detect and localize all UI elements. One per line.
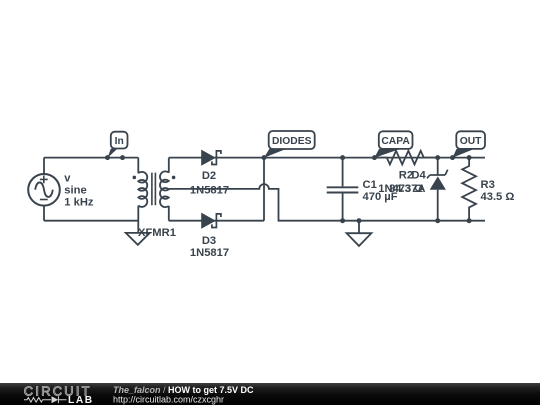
wire (43, 206, 45, 221)
wire riser (263, 158, 265, 221)
svg-text:1N5817: 1N5817 (190, 184, 229, 196)
label R2 (389, 170, 423, 195)
label R3 (481, 179, 515, 203)
diode D2 (201, 150, 221, 166)
node D4 top (435, 155, 440, 160)
label V1 value (64, 172, 94, 208)
wire (44, 157, 138, 159)
wire (168, 206, 170, 221)
svg-text:C1: C1 (363, 179, 377, 191)
wire (43, 158, 45, 174)
node R3 top (467, 155, 472, 160)
footer bar (0, 383, 540, 405)
svg-text:v: v (64, 172, 71, 184)
wire (169, 157, 264, 159)
wire (44, 220, 138, 222)
wire (168, 158, 170, 173)
node D4 bottom (435, 218, 440, 223)
wire (137, 206, 139, 233)
svg-text:OUT: OUT (460, 136, 482, 147)
flag OUT (452, 131, 485, 158)
label D3 (190, 235, 229, 259)
primary phase dot (133, 176, 137, 180)
wire (169, 220, 264, 222)
node R3 bottom (467, 218, 472, 223)
primary coil (138, 172, 147, 207)
svg-text:D4: D4 (411, 170, 426, 182)
svg-text:R3: R3 (481, 179, 495, 191)
flag CAPA (374, 131, 412, 158)
ground (347, 221, 372, 246)
transformer XFMR1 (133, 171, 176, 207)
secondary coil (160, 171, 169, 207)
diode D3 (201, 213, 221, 229)
voltage source V1 (28, 174, 60, 206)
label C1 (363, 179, 398, 203)
ground (126, 233, 150, 245)
label D4 (378, 170, 426, 195)
wire center tap with hop (169, 184, 485, 221)
wire (137, 158, 139, 174)
node In attach dot (105, 155, 110, 160)
svg-text:D2: D2 (202, 170, 216, 182)
svg-text:LAB: LAB (68, 395, 94, 405)
svg-text:1N4737A: 1N4737A (378, 183, 425, 195)
svg-text:DIODES: DIODES (272, 136, 312, 147)
svg-text:http://circuitlab.com/czxcghr: http://circuitlab.com/czxcghr (113, 395, 224, 405)
zener diode D4 (427, 158, 448, 221)
node diode output (262, 155, 267, 160)
node junction dot (120, 155, 125, 160)
node CAPA attach (372, 155, 377, 160)
svg-text:43.5 Ω: 43.5 Ω (481, 191, 515, 203)
svg-text:1 kHz: 1 kHz (64, 197, 94, 209)
label D2 (190, 170, 229, 197)
svg-text:CAPA: CAPA (381, 136, 410, 147)
capacitor C1 (327, 158, 359, 221)
core (152, 173, 156, 206)
resistor R3 (462, 158, 476, 221)
node ground tap (357, 218, 362, 223)
flag In (108, 132, 128, 158)
node C1 bottom (340, 218, 345, 223)
svg-text:In: In (115, 136, 124, 147)
logo zigzag and diode (24, 396, 67, 403)
wire top rail (264, 157, 485, 159)
svg-text:D3: D3 (202, 235, 216, 247)
svg-text:XFMR1: XFMR1 (138, 227, 176, 239)
resistor R2 (375, 151, 438, 165)
svg-text:The_falcon / HOW to get 7.5V D: The_falcon / HOW to get 7.5V DC (113, 385, 254, 395)
secondary phase dot (172, 176, 176, 180)
svg-text:1N5817: 1N5817 (190, 247, 229, 259)
node OUT attach (450, 155, 455, 160)
svg-text:sine: sine (64, 185, 86, 197)
node C1 top (340, 155, 345, 160)
flag DIODES (264, 131, 315, 158)
